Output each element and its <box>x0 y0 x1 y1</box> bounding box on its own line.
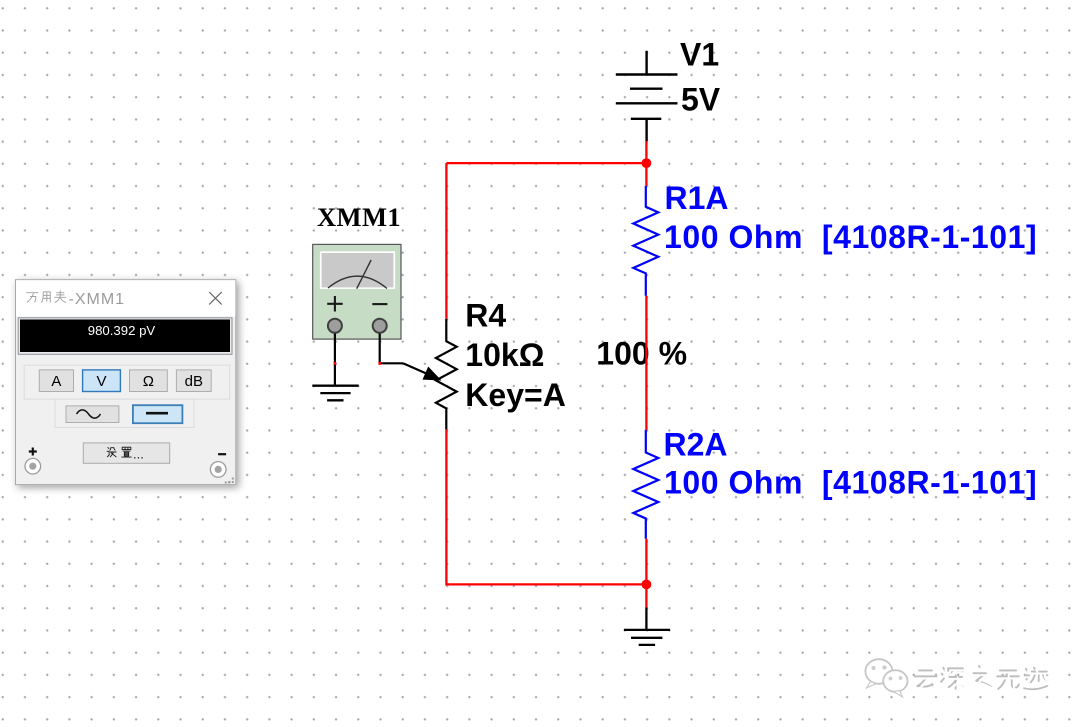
svg-text:XMM1: XMM1 <box>317 202 401 232</box>
svg-text:Ω: Ω <box>143 373 154 390</box>
svg-text:-XMM1: -XMM1 <box>69 291 126 308</box>
svg-text:980.392 pV: 980.392 pV <box>88 323 156 338</box>
svg-text:10kΩ: 10kΩ <box>465 337 544 373</box>
svg-text:V1: V1 <box>680 37 719 73</box>
svg-text:5V: 5V <box>681 82 721 118</box>
svg-text:Key=A: Key=A <box>465 377 566 413</box>
svg-text:100 %: 100 % <box>596 336 687 372</box>
svg-text:dB: dB <box>185 373 203 390</box>
svg-text:A: A <box>51 373 61 390</box>
svg-text:V: V <box>96 373 106 390</box>
svg-text:R1A: R1A <box>665 180 729 216</box>
svg-text:100 Ohm [4108R-1-101]: 100 Ohm [4108R-1-101] <box>664 465 1037 501</box>
svg-text:R2A: R2A <box>664 426 728 462</box>
svg-text:R4: R4 <box>465 297 506 333</box>
svg-text:100 Ohm [4108R-1-101]: 100 Ohm [4108R-1-101] <box>664 219 1037 255</box>
svg-text:...: ... <box>133 447 144 462</box>
